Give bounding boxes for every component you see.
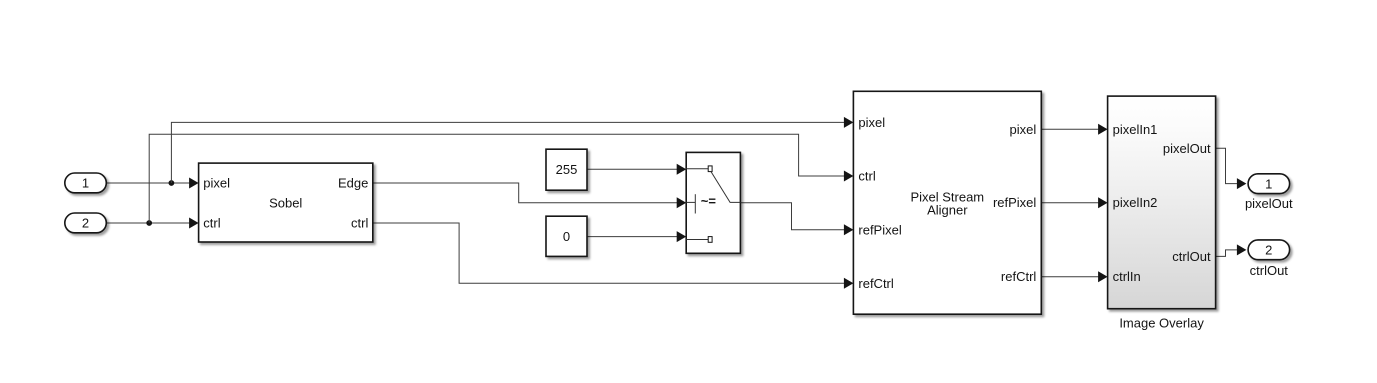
wire: branch from node to Pixel Stream Aligner pixel xyxy=(171,122,844,183)
svg-text:2: 2 xyxy=(82,216,89,231)
arrowhead into aligner ctrl xyxy=(844,171,854,182)
junction node on wire 1 xyxy=(169,180,175,186)
svg-text:Aligner: Aligner xyxy=(927,202,968,217)
wire: Sobel ctrl to aligner refCtrl xyxy=(373,223,844,283)
arrowhead into Sobel pixel xyxy=(189,178,199,189)
outport 1 xyxy=(1248,174,1290,194)
svg-text:ctrlIn: ctrlIn xyxy=(1113,269,1141,284)
arrowhead into ctrlIn xyxy=(1098,271,1108,282)
Sobel block xyxy=(199,163,373,242)
wire: Sobel Edge to switch data input xyxy=(373,183,677,203)
svg-text:Sobel: Sobel xyxy=(269,196,302,211)
switch input 3 port square xyxy=(708,237,712,243)
wire: Image Overlay pixelOut to outport 1 xyxy=(1216,148,1238,183)
svg-text:pixel: pixel xyxy=(858,115,885,130)
wire: inport 2 to Sobel ctrl xyxy=(106,222,189,224)
switch control stub xyxy=(686,201,695,203)
svg-text:pixelOut: pixelOut xyxy=(1163,141,1211,156)
switch control threshold bar xyxy=(694,194,696,213)
svg-text:255: 255 xyxy=(556,162,578,177)
outport 2 xyxy=(1248,240,1290,260)
junction node on wire 2 xyxy=(146,220,152,226)
wire: branch from node 2 to aligner ctrl xyxy=(149,134,844,223)
arrowhead into aligner pixel xyxy=(844,117,854,128)
arrowhead into outport 2 xyxy=(1237,244,1247,255)
svg-text:refPixel: refPixel xyxy=(858,222,901,237)
arrowhead into aligner refPixel xyxy=(844,224,854,235)
arrowhead into switch control input xyxy=(677,197,687,208)
wire: inport 1 to Sobel pixel xyxy=(106,182,189,184)
svg-text:Image Overlay: Image Overlay xyxy=(1119,316,1204,331)
arrowhead into switch input 1 xyxy=(677,164,687,175)
arrowhead into pixelIn2 xyxy=(1098,197,1108,208)
wire: Image Overlay ctrlOut to outport 2 xyxy=(1216,250,1238,257)
svg-text:1: 1 xyxy=(1265,176,1272,191)
wire: switch output to aligner refPixel xyxy=(740,203,844,230)
wire: constant 255 to switch input 1 xyxy=(587,168,677,170)
switch input 1 port square xyxy=(708,166,712,172)
wire: constant 0 to switch input 3 xyxy=(587,236,677,238)
svg-text:refCtrl: refCtrl xyxy=(1001,269,1037,284)
Pixel Stream Aligner block xyxy=(853,91,1041,314)
constant 255 xyxy=(546,149,587,190)
arrowhead into outport 1 xyxy=(1237,178,1247,189)
svg-text:0: 0 xyxy=(563,229,570,244)
constant 0 xyxy=(546,216,587,256)
svg-text:ctrl: ctrl xyxy=(203,216,220,231)
inport 1 xyxy=(65,173,107,193)
svg-text:refCtrl: refCtrl xyxy=(858,276,894,291)
svg-text:Edge: Edge xyxy=(338,176,368,191)
svg-text:2: 2 xyxy=(1265,242,1272,257)
wire: aligner refCtrl out to Image Overlay ctrlIn xyxy=(1041,276,1098,278)
svg-text:ctrl: ctrl xyxy=(351,216,368,231)
svg-text:pixelIn2: pixelIn2 xyxy=(1113,195,1158,210)
arrowhead into aligner refCtrl xyxy=(844,278,854,289)
svg-text:1: 1 xyxy=(82,176,89,191)
svg-text:refPixel: refPixel xyxy=(993,195,1036,210)
arrowhead into Sobel ctrl xyxy=(189,218,199,229)
svg-text:ctrl: ctrl xyxy=(858,169,875,184)
arrowhead into pixelIn1 xyxy=(1098,124,1108,135)
wire: aligner pixel out to Image Overlay pixelIn1 xyxy=(1041,128,1098,130)
switch U1 xyxy=(686,152,740,253)
wire: aligner refPixel out to Image Overlay pixelIn2 xyxy=(1041,202,1098,204)
switch input 1 stub xyxy=(686,168,708,170)
svg-text:pixel: pixel xyxy=(1010,122,1037,137)
svg-text:pixel: pixel xyxy=(203,176,230,191)
arrowhead into switch input 3 xyxy=(677,231,687,242)
switch input 3 stub xyxy=(686,239,708,241)
svg-text:ctrlOut: ctrlOut xyxy=(1250,263,1289,278)
switch arm diagonal xyxy=(711,172,740,203)
svg-text:~=: ~= xyxy=(701,194,717,209)
svg-text:pixelIn1: pixelIn1 xyxy=(1113,122,1158,137)
svg-text:ctrlOut: ctrlOut xyxy=(1172,249,1211,264)
inport 2 xyxy=(65,213,107,233)
svg-text:pixelOut: pixelOut xyxy=(1245,196,1293,211)
Image Overlay block xyxy=(1108,96,1216,309)
